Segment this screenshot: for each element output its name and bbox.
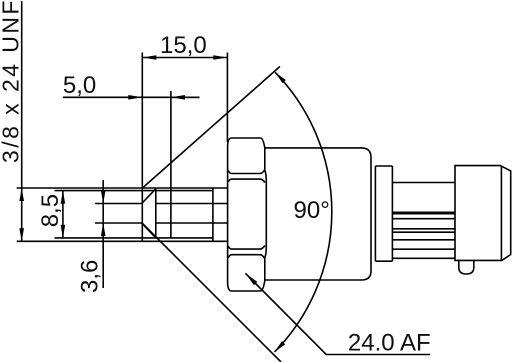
svg-text:3,6: 3,6 bbox=[77, 260, 104, 293]
shaft thick band bbox=[392, 212, 455, 215]
svg-text:3/8 x 24 UNF: 3/8 x 24 UNF bbox=[0, 0, 24, 163]
stud root line bottom right bbox=[156, 222, 228, 224]
svg-text:5,0: 5,0 bbox=[63, 72, 96, 99]
dimension 8,5 line bbox=[62, 191, 64, 238]
dimension 5,0 tail left bbox=[63, 96, 200, 98]
step ring bottom bbox=[375, 260, 392, 262]
thread designation arrow down bbox=[19, 228, 24, 241]
dimension 15,0 line bbox=[142, 57, 227, 59]
hex facet band upper line1 bbox=[228, 170, 264, 174]
thread start vertical bbox=[155, 189, 157, 238]
hex facet band lower line1 bbox=[228, 246, 265, 250]
svg-text:90°: 90° bbox=[294, 197, 330, 224]
5,0 arrow right-pointing bbox=[128, 95, 142, 100]
thread designation arrow up bbox=[19, 188, 24, 201]
connector nub bbox=[459, 260, 474, 274]
shaft top line bbox=[392, 182, 455, 184]
hex nut outline bbox=[228, 138, 267, 291]
stud root line top right bbox=[156, 203, 228, 205]
15,0 extension line right (to hex) bbox=[226, 53, 228, 143]
step ring left bbox=[374, 166, 376, 261]
15,0 extension line left (through stud) bbox=[141, 53, 143, 242]
hex facet band upper line2 bbox=[228, 179, 265, 182]
thread chamfer diagonal top bbox=[142, 189, 156, 204]
svg-text:24.0 AF: 24.0 AF bbox=[348, 330, 431, 357]
5,0 arrow left-pointing bbox=[171, 95, 185, 100]
thread chamfer diagonal bottom bbox=[142, 223, 156, 238]
stud root line top left bbox=[95, 203, 142, 205]
8,5 arrow down bbox=[61, 225, 66, 238]
stud 8.5 line bottom bbox=[55, 237, 213, 239]
shaft line 6 bbox=[392, 239, 455, 241]
dimension 3,6 line bbox=[102, 180, 104, 288]
5,0 tail right bbox=[171, 96, 200, 98]
connector front-right edge bbox=[500, 166, 502, 260]
15,0 arrow right bbox=[213, 55, 227, 60]
90 arc arrow top bbox=[275, 72, 286, 83]
cone line lower bbox=[142, 223, 281, 362]
90 arc arrow bottom bbox=[275, 341, 286, 352]
stud crest line bottom bbox=[17, 240, 228, 242]
cone line upper bbox=[143, 67, 280, 188]
8,5 arrow up bbox=[61, 191, 66, 204]
step ring right bbox=[391, 166, 393, 261]
shaft line 4 bbox=[392, 228, 455, 230]
15,0 arrow left bbox=[142, 55, 156, 60]
shaft line 5 bbox=[392, 231, 455, 233]
shaft bottom line bbox=[392, 257, 455, 259]
shaft line 7 bbox=[392, 248, 455, 250]
leader arrow to hex (24.0 AF) bbox=[245, 273, 257, 285]
leader line bbox=[245, 273, 430, 354]
stud crest line top bbox=[17, 187, 228, 189]
3,6 arrow down (tip at top root line) bbox=[101, 191, 106, 204]
hex facet band lower line2 bbox=[228, 255, 264, 259]
stud root line bottom left bbox=[95, 222, 142, 224]
main body outline bbox=[265, 148, 371, 280]
thread runout vertical bbox=[212, 188, 214, 241]
connector block front face bbox=[455, 166, 511, 261]
3,6 arrow up (tip at bottom root line) bbox=[101, 223, 106, 236]
step ring top bbox=[375, 165, 392, 167]
svg-text:8,5: 8,5 bbox=[37, 194, 64, 227]
5,0 extension line bbox=[170, 91, 172, 238]
svg-text:15,0: 15,0 bbox=[160, 32, 207, 59]
90 degree dimension arc bbox=[275, 72, 332, 352]
shaft line 3 bbox=[392, 218, 455, 220]
thread designation dimension line (vertical, left edge) bbox=[21, 1, 23, 241]
stud 8.5 line top bbox=[55, 190, 213, 192]
